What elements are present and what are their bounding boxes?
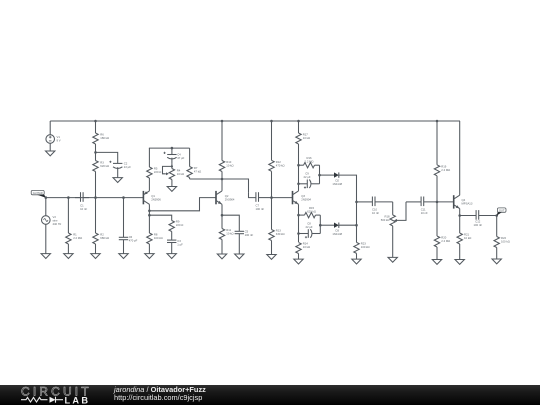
node Q1 collector xyxy=(148,210,151,213)
svg-text:220 Ω: 220 Ω xyxy=(176,223,183,227)
node R2 xyxy=(94,196,97,199)
svg-text:R7: R7 xyxy=(194,166,198,170)
svg-text:R19: R19 xyxy=(441,165,447,169)
svg-text:500 kΩ: 500 kΩ xyxy=(381,218,390,222)
wire Q1 collector to Q2 base xyxy=(149,198,216,211)
source V2 sine 440Hz xyxy=(42,198,62,226)
wire R16 C9 loop right xyxy=(319,165,321,184)
svg-text:680 kΩ: 680 kΩ xyxy=(100,236,109,240)
svg-text:22 µF: 22 µF xyxy=(305,225,312,229)
svg-text:Q4: Q4 xyxy=(462,198,466,202)
resistor R2 680k xyxy=(93,198,109,254)
diode D2 1N4148 xyxy=(332,172,342,186)
svg-text:MPSA13: MPSA13 xyxy=(462,201,473,205)
svg-text:100 nF: 100 nF xyxy=(474,223,483,227)
svg-text:GUITAR: GUITAR xyxy=(33,191,43,195)
wire to R9 xyxy=(149,215,171,220)
ground below R18 xyxy=(388,257,397,262)
node R1 xyxy=(67,196,70,199)
svg-text:10 kΩ: 10 kΩ xyxy=(226,231,233,235)
node C6 xyxy=(122,196,125,199)
svg-text:R17: R17 xyxy=(303,133,309,137)
voltage source V1 9V xyxy=(46,121,61,143)
node output xyxy=(495,214,498,217)
transistor Q2 2N3904 xyxy=(216,191,235,204)
resistor R22 100k xyxy=(494,216,499,260)
svg-text:47 kΩ: 47 kΩ xyxy=(194,169,201,173)
svg-text:sine: sine xyxy=(53,218,59,222)
node R10 bottom xyxy=(221,178,224,181)
node R6-R3 xyxy=(94,151,97,154)
capacitor C3 1uF xyxy=(167,239,183,254)
capacitor C4 47uF xyxy=(164,148,185,163)
svg-text:OUT: OUT xyxy=(499,208,505,212)
transistor Q1 2N3906 xyxy=(143,191,161,204)
capacitor C1 10nF xyxy=(75,192,89,211)
capacitor C7 100nF xyxy=(249,192,272,211)
wire Q1 emitter xyxy=(148,178,150,191)
svg-text:LAB: LAB xyxy=(65,395,91,405)
svg-text:470 pF: 470 pF xyxy=(129,238,138,242)
wire D2 to out node xyxy=(339,175,357,242)
svg-text:22 µF: 22 µF xyxy=(303,175,310,179)
node C4 top xyxy=(171,147,174,150)
svg-text:47 µF: 47 µF xyxy=(177,156,184,160)
svg-text:100 kΩ: 100 kΩ xyxy=(501,239,510,243)
logo diode xyxy=(50,396,64,402)
wire to D2 xyxy=(320,174,335,176)
logo LAB text xyxy=(65,395,91,405)
ground below R13 xyxy=(267,255,276,260)
wire Q1 local rail xyxy=(149,147,190,149)
wire Q3 base xyxy=(272,197,293,199)
svg-text:2.2 MΩ: 2.2 MΩ xyxy=(305,159,314,163)
svg-text:100 kΩ: 100 kΩ xyxy=(154,236,163,240)
wire Q4 collector to rail xyxy=(459,121,461,195)
resistor R8 100k xyxy=(147,233,163,254)
svg-text:R18: R18 xyxy=(384,215,390,219)
node rail R17 xyxy=(297,120,300,123)
potentiometer R18 500k xyxy=(381,202,406,258)
node Q1 R9 branch xyxy=(148,214,151,217)
footer bar xyxy=(0,385,540,406)
svg-text:C11: C11 xyxy=(421,208,426,212)
ground below R11 xyxy=(217,254,226,259)
svg-text:R4: R4 xyxy=(177,169,181,173)
svg-text:10 nF: 10 nF xyxy=(80,207,87,211)
resistor R9 220 xyxy=(169,220,183,241)
node Q2 emitter xyxy=(221,214,224,217)
node Q4 emitter xyxy=(458,214,461,217)
svg-text:C6: C6 xyxy=(129,235,133,239)
capacitor C9 22uF xyxy=(299,172,320,189)
output flag OUT xyxy=(497,208,506,216)
svg-text:C4: C4 xyxy=(177,153,181,157)
svg-text:R22: R22 xyxy=(501,236,507,240)
svg-text:R12: R12 xyxy=(276,160,282,164)
svg-text:D2: D2 xyxy=(335,179,339,183)
svg-text:V2: V2 xyxy=(53,215,57,219)
svg-text:R21: R21 xyxy=(464,233,470,237)
svg-text:R1: R1 xyxy=(73,233,77,237)
svg-text:620 kΩ: 620 kΩ xyxy=(100,164,109,168)
capacitor C6 470pF xyxy=(119,198,138,254)
wire to D3 xyxy=(320,224,334,226)
wire emitter to C5 xyxy=(222,215,239,231)
ground below C6 xyxy=(119,254,128,259)
ground below R14 xyxy=(294,259,303,264)
svg-text:Q2: Q2 xyxy=(225,194,229,198)
node C9 left xyxy=(297,183,300,186)
svg-text:620 kΩ: 620 kΩ xyxy=(307,209,316,213)
svg-text:R11: R11 xyxy=(226,228,231,232)
ground below R8 xyxy=(145,254,154,259)
ground below V1 xyxy=(46,143,55,156)
wire Q3 emitter xyxy=(298,204,300,242)
capacitor C10 10nF xyxy=(357,197,393,215)
svg-text:330 kΩ: 330 kΩ xyxy=(276,232,285,236)
ground below C3 xyxy=(167,254,176,259)
wire input signal line xyxy=(46,197,144,199)
svg-text:R3: R3 xyxy=(100,161,104,165)
svg-text:R5: R5 xyxy=(154,167,158,171)
ground below R1 xyxy=(64,254,73,259)
resistor R23 100k xyxy=(354,242,370,260)
CircuitLab wordmark xyxy=(21,384,92,398)
ground below R21 xyxy=(455,260,464,265)
svg-text:440 Hz: 440 Hz xyxy=(53,222,62,226)
svg-text:C7: C7 xyxy=(256,204,260,208)
node D2 branch xyxy=(318,174,321,177)
svg-text:C1: C1 xyxy=(80,204,84,208)
resistor R21 10k xyxy=(457,233,471,260)
capacitor C11 10nF xyxy=(406,197,454,215)
svg-text:2N3904: 2N3904 xyxy=(301,198,311,202)
svg-text:9 V: 9 V xyxy=(57,138,61,142)
resistor R15 620k horizontal xyxy=(299,206,321,218)
node mix xyxy=(355,224,358,227)
node rail R19 xyxy=(436,120,439,123)
svg-text:R10: R10 xyxy=(226,160,232,164)
svg-text:C5: C5 xyxy=(245,230,249,234)
svg-text:R8: R8 xyxy=(154,233,158,237)
svg-text:10 nF: 10 nF xyxy=(421,211,428,215)
node C8 left xyxy=(297,232,300,235)
label R22 xyxy=(501,236,510,243)
svg-text:2.2 MΩ: 2.2 MΩ xyxy=(441,168,450,172)
node rail R10 xyxy=(221,120,224,123)
resistor R7 47k xyxy=(187,148,201,179)
transistor Q4 MPSA13 xyxy=(454,195,473,208)
svg-text:2N3906: 2N3906 xyxy=(151,198,161,202)
node rail R6 xyxy=(94,120,97,123)
resistor R14 10k xyxy=(296,242,310,260)
svg-text:R6: R6 xyxy=(100,133,104,137)
diode D3 1N4148 xyxy=(332,223,342,236)
resistor R3 620k xyxy=(93,152,109,197)
svg-text:R2: R2 xyxy=(100,233,104,237)
svg-text:1N4148: 1N4148 xyxy=(332,182,342,186)
footer credit text xyxy=(114,386,206,402)
svg-text:C3: C3 xyxy=(177,239,181,243)
logo resistor zigzag xyxy=(21,397,48,402)
transistor Q3 2N3904 xyxy=(293,191,312,204)
svg-text:10 nF: 10 nF xyxy=(372,211,379,215)
svg-text:220 Ω: 220 Ω xyxy=(154,170,161,174)
wire Q2 emitter xyxy=(221,204,223,228)
node Q4 base xyxy=(436,201,439,204)
svg-text:Q1: Q1 xyxy=(151,194,155,198)
svg-text:22 µF: 22 µF xyxy=(124,165,131,169)
node R15 left xyxy=(297,214,300,217)
svg-text:D3: D3 xyxy=(335,229,339,233)
svg-text:R14: R14 xyxy=(303,242,309,246)
resistor R13 330k xyxy=(269,198,285,255)
input flag GUITAR xyxy=(31,190,46,197)
resistor R16 2.2M horizontal xyxy=(299,156,320,168)
resistor R1 2.2M xyxy=(66,198,82,254)
ground below R2 xyxy=(91,254,100,259)
wire Q1 collector xyxy=(148,204,150,233)
svg-text:2.2 MΩ: 2.2 MΩ xyxy=(73,236,82,240)
ground below V2 xyxy=(41,224,50,258)
resistor R10 10k xyxy=(219,121,233,179)
node R16 left xyxy=(297,164,300,167)
svg-text:100 nF: 100 nF xyxy=(256,207,265,211)
resistor R5 220 xyxy=(147,148,162,178)
node input xyxy=(45,196,48,199)
svg-text:V1: V1 xyxy=(57,135,61,139)
node rail R12 xyxy=(270,120,273,123)
svg-text:2N3904: 2N3904 xyxy=(225,198,235,202)
wire R7 to Q2 collector node xyxy=(190,179,249,192)
svg-text:R23: R23 xyxy=(361,242,367,246)
ground below R22 xyxy=(492,259,501,264)
node C10 left xyxy=(355,201,358,204)
wire top power rail xyxy=(50,120,460,122)
node D3 branch xyxy=(319,224,322,227)
svg-text:470 kΩ: 470 kΩ xyxy=(276,163,285,167)
wire D3 to out node xyxy=(339,224,357,226)
svg-text:10 kΩ: 10 kΩ xyxy=(226,163,233,167)
capacitor C2 22uF xyxy=(96,152,132,177)
svg-text:10 kΩ: 10 kΩ xyxy=(177,172,184,176)
ground below R23 xyxy=(352,259,361,264)
svg-text:100 kΩ: 100 kΩ xyxy=(361,245,370,249)
resistor R12 470k xyxy=(269,121,285,198)
svg-text:R13: R13 xyxy=(276,229,282,233)
resistor R20 2.2M xyxy=(434,202,450,260)
resistor R11 10k xyxy=(219,228,233,254)
capacitor C5 100nF xyxy=(235,230,254,255)
ground below C5 xyxy=(235,254,244,259)
svg-text:2.2 MΩ: 2.2 MΩ xyxy=(441,239,450,243)
svg-text:10 kΩ: 10 kΩ xyxy=(464,236,471,240)
svg-text:10 kΩ: 10 kΩ xyxy=(303,245,310,249)
wire Q4 emitter xyxy=(459,209,461,233)
svg-text:C9: C9 xyxy=(305,172,309,176)
svg-text:C2: C2 xyxy=(124,162,128,166)
svg-text:C8: C8 xyxy=(307,222,311,226)
svg-text:C10: C10 xyxy=(372,208,378,212)
resistor R19 2.2M xyxy=(434,121,450,202)
svg-text:1 µF: 1 µF xyxy=(177,242,183,246)
ground below C2 xyxy=(113,178,122,183)
svg-text:R20: R20 xyxy=(441,236,447,240)
wire R15 C8 loop right xyxy=(319,215,321,233)
svg-text:1N4148: 1N4148 xyxy=(332,232,342,236)
svg-text:180 kΩ: 180 kΩ xyxy=(100,136,109,140)
potentiometer R4 10k xyxy=(163,163,185,186)
svg-text:10 kΩ: 10 kΩ xyxy=(303,136,310,140)
ground below R20 xyxy=(432,260,441,265)
node Q3 base xyxy=(270,196,273,199)
capacitor C12 100nF xyxy=(474,210,497,227)
wire R10 to collector xyxy=(221,179,223,191)
svg-text:C12: C12 xyxy=(475,220,481,224)
svg-text:R9: R9 xyxy=(176,220,180,224)
wire emitter to C12 xyxy=(460,215,476,217)
resistor R17 10k xyxy=(296,121,310,191)
svg-text:R15: R15 xyxy=(309,206,315,210)
resistor R6 180k xyxy=(93,121,109,152)
ground below R4 xyxy=(167,187,176,192)
svg-text:Q3: Q3 xyxy=(301,194,305,198)
svg-text:100 nF: 100 nF xyxy=(245,233,254,237)
capacitor C8 22uF xyxy=(299,222,321,239)
svg-text:R16: R16 xyxy=(306,156,312,160)
